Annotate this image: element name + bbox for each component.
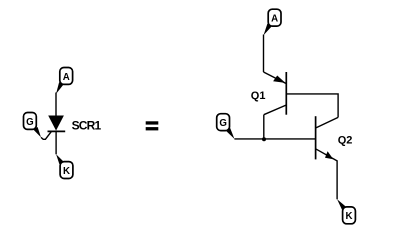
svg-text:Q2: Q2 [338,135,353,147]
svg-text:Q1: Q1 [251,90,266,102]
port A (SCR anode) [56,68,73,95]
svg-text:A: A [63,72,70,83]
thyristor SCR1 [48,116,66,132]
svg-text:SCR1: SCR1 [72,119,102,133]
svg-text:K: K [63,166,70,177]
transistor Q2 (NPN) [316,116,339,161]
junction node [262,137,266,141]
svg-text:G: G [219,118,227,129]
wire gate line to Q2 base [234,138,315,140]
transistor Q1 (PNP) [264,72,287,115]
port K (SCR cathode) [56,154,73,178]
equals sign [146,121,159,130]
wire Q1 collector to gate node [263,115,265,139]
port K (equivalent circuit cathode) [337,199,355,223]
port G (SCR gate) [24,113,42,138]
wire SCR1 cathode [55,131,57,154]
wire anode to Q1 emitter [263,35,265,73]
port G (equivalent circuit gate) [217,114,235,139]
wire gate to SCR1 [41,131,51,139]
wire Q1 base to Q2 collector [286,94,338,118]
svg-text:K: K [346,211,353,222]
svg-text:A: A [271,14,278,25]
wire anode to SCR1 [55,93,57,117]
wire Q2 emitter to K [336,160,338,199]
port A (equivalent circuit anode) [264,9,282,35]
svg-text:G: G [26,117,34,128]
